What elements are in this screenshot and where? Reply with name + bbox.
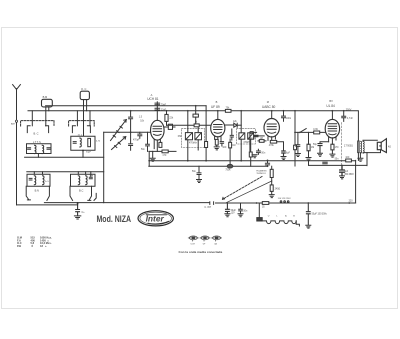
svg-text:A: A — [151, 93, 153, 97]
wire R-avc to pot — [229, 148, 231, 164]
node IFT1 top — [187, 110, 189, 112]
svg-text:Con la onda media conectada: Con la onda media conectada — [179, 250, 223, 254]
ground C-tone — [295, 154, 300, 157]
wire grid line to UCH81 — [104, 131, 151, 133]
node mains tap 220 — [348, 202, 350, 204]
svg-text:B.M: B.M — [43, 95, 48, 99]
variable capacitor CV1 ticks — [113, 126, 122, 137]
wire volume line — [149, 165, 268, 167]
wire IFT1 secondary leads — [197, 128, 199, 150]
switch tone arrow — [300, 129, 306, 133]
wire R-screen down — [166, 121, 168, 125]
resistor R-screen UCH81 — [166, 111, 168, 115]
heater dropper start — [258, 203, 260, 218]
resistor R-1M — [259, 140, 264, 143]
node UL84 top — [332, 110, 334, 112]
node C-4u7 bottom — [267, 165, 269, 167]
capacitor C-50n mains — [239, 203, 243, 213]
wire UCH81 top pin — [156, 102, 158, 121]
wire screen feed — [195, 106, 197, 124]
svg-text:O. L: O. L — [78, 133, 83, 137]
ground C-50n vol — [197, 180, 202, 183]
voltage selector taps — [280, 201, 282, 203]
node C-4u7 top — [267, 160, 269, 162]
svg-text:1M: 1M — [311, 147, 314, 149]
wire bandswitch feed 2 — [76, 111, 78, 126]
wire speaker return — [366, 153, 368, 166]
variable capacitor CV1 — [111, 120, 127, 141]
capacitor C-tone — [296, 132, 300, 153]
resistor R-B+ dropper — [205, 142, 208, 148]
node speaker — [379, 145, 381, 147]
svg-text:L T T. S: L T T. S — [33, 141, 41, 144]
dashed shield outline 1 — [21, 121, 54, 126]
resistor R-det — [249, 152, 252, 157]
svg-text:470kHz: 470kHz — [189, 142, 198, 144]
capacitor C-50u mains — [306, 203, 310, 225]
wire return bus — [309, 164, 367, 166]
coil box L4 — [71, 174, 96, 186]
tube UF89 grids — [214, 125, 222, 130]
wire HT lower bus — [150, 160, 356, 162]
tube UCH81 cathode — [154, 134, 161, 135]
tube UCH81 envelope — [151, 120, 165, 140]
resistor R-grid UL84 — [314, 131, 320, 134]
svg-text:12V: 12V — [231, 213, 236, 215]
ground C-8u350 — [340, 176, 345, 179]
wire R-filament down — [271, 178, 273, 182]
coil box L3 — [27, 174, 50, 186]
node HT-AF junction — [148, 160, 150, 162]
variable capacitor CV2 ticks — [115, 142, 121, 147]
node R-screen top — [166, 110, 168, 112]
wire left enclosure vertical — [103, 132, 105, 202]
resistor R-k UF89 — [215, 139, 218, 145]
svg-text:50pF: 50pF — [86, 152, 92, 154]
wire bottom left to switch — [104, 202, 210, 204]
wire secondary top — [363, 140, 377, 141]
svg-text:22nF: 22nF — [161, 110, 167, 112]
tube UABC80 cathode — [268, 132, 276, 133]
coil L4b — [86, 176, 88, 185]
node CT1 bottom — [130, 131, 132, 133]
coil L3a — [34, 176, 36, 185]
wire transformer B+ lead — [357, 153, 359, 161]
wire heater bus A — [46, 105, 207, 107]
node C-100n top — [283, 110, 285, 112]
switch INT right contact — [213, 202, 215, 205]
svg-text:Mod. NIZA: Mod. NIZA — [97, 214, 132, 224]
tube UL84 grids — [328, 124, 336, 131]
wire filament diagonal — [226, 181, 272, 203]
capacitor C-L1a — [28, 148, 31, 150]
ground C-8u — [281, 157, 286, 160]
IFT1 winding secondary — [195, 133, 202, 140]
IFT2 winding primary — [239, 133, 245, 139]
svg-text:50μ: 50μ — [313, 144, 318, 146]
wire IFT2 secondary bottom — [250, 139, 252, 152]
logo Inter ellipse — [138, 211, 173, 226]
IFT2 shield dashed — [237, 129, 256, 144]
wire L1 tap — [37, 154, 39, 158]
capacitor C-L4 — [89, 177, 92, 179]
wire stub to coil box 2 — [89, 111, 91, 126]
svg-text:8μF: 8μF — [344, 171, 349, 173]
resistor R-L2 — [88, 138, 91, 146]
svg-text:18 »: 18 » — [40, 244, 47, 248]
tube UL84 cathode — [329, 134, 336, 135]
switch contact S1a — [27, 126, 30, 133]
ground R-170 — [330, 150, 335, 157]
wire bandswitch feed 1 — [31, 111, 33, 126]
ground R-500k — [306, 151, 311, 161]
resistor R-470k — [270, 140, 276, 143]
connector symbol 1 — [188, 236, 222, 241]
svg-text:8μF: 8μF — [286, 152, 291, 154]
svg-text:TERMICO: TERMICO — [256, 173, 266, 175]
connector symbol 3 — [213, 236, 221, 240]
wire IFT1 primary bottom — [187, 140, 189, 161]
node UF89 top — [217, 110, 219, 112]
capacitor C-det — [230, 129, 233, 140]
switch arm S3b — [47, 186, 50, 200]
resistor R-screen feed — [193, 114, 198, 117]
wire mid bus 2 — [27, 171, 104, 173]
node L2 junction — [82, 150, 84, 152]
coil L1a — [35, 145, 37, 153]
ground C-50n mains — [238, 214, 243, 217]
svg-text:220: 220 — [349, 200, 354, 203]
capacitor C-50u — [226, 203, 230, 213]
capacitor C-k UF89 — [220, 142, 223, 146]
coil L2a — [80, 138, 82, 147]
switch contact S1b — [46, 126, 49, 133]
wire UL84 pins below — [329, 137, 336, 144]
wire heater bus B — [28, 111, 358, 141]
node heater top — [256, 202, 258, 204]
IFT2 winding secondary — [248, 133, 254, 139]
switch arm S4c — [94, 193, 96, 200]
capacitor C-470p — [254, 135, 258, 137]
resistor R-240 — [270, 185, 273, 192]
svg-text:M: M — [267, 100, 269, 104]
wire osc grid stub — [164, 126, 175, 128]
node coupling top — [294, 110, 296, 112]
ground UF89 — [214, 145, 219, 150]
resistor R-500k — [308, 132, 310, 144]
connector symbol 2 — [201, 236, 209, 240]
capacitor C-L2 — [73, 142, 76, 144]
switch arm S4a — [70, 186, 73, 200]
dashed shield outline 2 — [69, 121, 95, 126]
wire R-det to pot wire — [250, 157, 252, 166]
capacitor C-pad 470pF — [138, 132, 142, 138]
wire UABC80 top pin — [271, 111, 273, 119]
table wave bands — [17, 236, 52, 248]
resistor R-1k — [194, 124, 199, 127]
capacitor C-L1b — [47, 148, 50, 150]
tube UF89 cathode — [214, 131, 221, 134]
resistor R-70k — [225, 109, 231, 112]
ground UCH81 — [150, 151, 155, 161]
wire mains right vertical — [355, 160, 357, 203]
capacitor C-k UL84 — [318, 144, 322, 153]
dashed link vertical — [341, 123, 343, 170]
wire IFT2 primary bottom — [240, 139, 242, 161]
capacitor C-elec left — [76, 203, 80, 216]
wire diode to IFT2 — [237, 124, 241, 126]
wire coupling vertical — [294, 111, 296, 166]
wire B.C coil feeds — [78, 172, 91, 177]
coil box L2 — [71, 136, 95, 150]
wire UL84 top pin — [331, 111, 333, 120]
svg-text:750k: 750k — [225, 170, 231, 172]
capacitor C-100n — [282, 111, 286, 121]
antenna — [13, 85, 21, 90]
svg-text:B.C: B.C — [79, 189, 83, 193]
wire UABC80 pins below — [268, 136, 275, 140]
svg-text:P.B: P.B — [17, 244, 21, 248]
wire B.M coil feeds — [34, 172, 42, 174]
wire UF89 anode — [225, 124, 234, 126]
ground transformer — [358, 153, 363, 162]
svg-text:UL 84: UL 84 — [326, 104, 335, 108]
wire mid bus 1 — [25, 156, 104, 158]
wire diode branch — [249, 132, 251, 151]
node IFT1 bottom — [187, 160, 189, 162]
shield can O.C — [80, 91, 89, 99]
ground C-50u mains — [306, 225, 311, 228]
capacitor C-8u 350V — [340, 165, 345, 175]
capacitor C-osc bottom — [155, 108, 160, 110]
potentiometer P-750k — [227, 164, 233, 168]
svg-text:1M: 1M — [232, 145, 235, 147]
wire B+ feed vertical — [205, 106, 207, 161]
svg-text:110 125 220V: 110 125 220V — [278, 198, 292, 200]
IFT1 winding primary — [185, 133, 192, 140]
wire can O.C lead 1 — [83, 100, 85, 136]
node grid junction — [294, 132, 296, 134]
node antenna terminal — [15, 120, 17, 122]
coil L1b — [42, 145, 44, 153]
wire IFT2 grid out — [254, 135, 265, 137]
diode D1 — [234, 123, 237, 127]
svg-text:470pF: 470pF — [133, 140, 140, 142]
svg-text:70pF: 70pF — [161, 104, 167, 106]
ground R-240 — [269, 195, 274, 198]
svg-text:50μF 150 300v: 50μF 150 300v — [312, 213, 328, 215]
resistor R-avc — [229, 142, 232, 148]
coil box L1 — [27, 144, 52, 154]
capacitor C-8u — [282, 151, 285, 156]
svg-text:B: B — [216, 100, 218, 104]
wire antenna down-lead — [16, 89, 18, 205]
svg-text:4Ω: 4Ω — [388, 146, 391, 148]
wire IFT1 primary top — [187, 111, 189, 133]
switch contact S2a — [72, 126, 75, 133]
wire bottom chassis left — [44, 202, 103, 204]
svg-text:BV: BV — [329, 99, 333, 103]
transformer T-out primary — [360, 141, 361, 153]
node C50u top — [307, 202, 309, 204]
node B+ bottom — [205, 160, 207, 162]
resistor R-k UCH81 — [159, 142, 162, 147]
node screen feed — [195, 105, 197, 107]
capacitor C-4u7 filament — [265, 160, 269, 166]
svg-text:350 380V: 350 380V — [344, 174, 354, 176]
svg-text:Z 7000Ω: Z 7000Ω — [344, 145, 353, 147]
resistor R-35 — [262, 202, 269, 205]
svg-text:UCH: UCH — [191, 244, 196, 246]
capacitor C-4n7 — [342, 111, 346, 122]
svg-text:250V: 250V — [346, 109, 352, 112]
dashed pot link — [223, 177, 263, 200]
wire R-470k right — [277, 142, 284, 151]
resistor R-170 — [331, 144, 334, 150]
wire UCH81 cathode line — [149, 150, 176, 152]
node electrolytic junction — [77, 203, 79, 205]
ground det — [252, 155, 257, 158]
tube UCH81 grids — [153, 126, 162, 131]
ground C-50u — [225, 214, 230, 217]
svg-text:4,7nF: 4,7nF — [347, 118, 353, 120]
coil L4a — [78, 176, 80, 185]
capacitor C-osc top — [155, 103, 160, 105]
resistor R-coupling — [294, 145, 297, 150]
svg-text:0,39: 0,39 — [313, 129, 318, 131]
node IFT2 top — [240, 110, 242, 112]
capacitor C-50n vol — [197, 166, 201, 179]
wire UF89 pins below — [215, 136, 221, 141]
ground C-k UL84 — [318, 153, 323, 156]
svg-text:B. C: B. C — [34, 132, 39, 136]
wire pot feed vertical — [148, 151, 150, 166]
svg-text:UCH 81: UCH 81 — [147, 97, 159, 101]
transformer T-out core — [358, 141, 359, 153]
capacitor trimmer CT2 — [129, 132, 133, 150]
coil L3b — [43, 176, 45, 185]
svg-text:1M: 1M — [260, 138, 263, 140]
transformer T-out secondary — [363, 141, 364, 153]
svg-text:240Ω: 240Ω — [275, 188, 281, 190]
wire bottom chassis right — [216, 202, 356, 204]
svg-text:100n: 100n — [286, 118, 292, 120]
tube UL84 envelope — [325, 119, 339, 138]
svg-text:FM: FM — [178, 136, 181, 138]
wire UF89 top pin — [217, 111, 219, 120]
resistor R-cath horizontal — [162, 150, 168, 153]
wire can B.M lead 2 — [48, 107, 50, 111]
svg-text:UABC 80: UABC 80 — [262, 105, 276, 109]
variable capacitor CV2 — [112, 137, 126, 150]
shield can B.M — [42, 99, 53, 107]
heater chain end hook — [296, 221, 299, 226]
switch arm S3a — [26, 186, 30, 200]
wire IFT1 feed — [167, 124, 211, 126]
resistor R-filament — [271, 166, 273, 169]
switch contact S2b — [87, 126, 90, 133]
svg-text:UF 89: UF 89 — [211, 105, 220, 109]
capacitor trimmer CT1 — [129, 111, 133, 133]
wire antenna return — [17, 204, 78, 206]
ground left electrolytic — [74, 216, 80, 219]
node C-4n7 top — [343, 110, 345, 112]
capacitor C-osc grid box — [168, 124, 172, 129]
switch INT left contact — [209, 202, 211, 205]
wire UL84 grid line — [295, 131, 325, 133]
svg-text:470kHz: 470kHz — [243, 142, 252, 144]
wire cathode to cap — [320, 142, 329, 144]
heater chain — [262, 221, 296, 224]
svg-text:O. C: O. C — [81, 87, 86, 91]
svg-text:470pF: 470pF — [249, 138, 256, 140]
wire can O.C lead 2 — [86, 100, 88, 111]
resistor R-100 — [346, 159, 352, 162]
diode plates UABC80 — [250, 132, 256, 134]
svg-text:C. INT: C. INT — [204, 206, 211, 209]
tube UABC80 grids — [267, 124, 276, 129]
wire L2 tap — [82, 150, 84, 157]
svg-text:ANT: ANT — [11, 123, 16, 126]
IFT1 shield dashed — [182, 128, 205, 147]
capacitor C-50n left — [146, 132, 150, 151]
capacitor C-ret small — [323, 162, 327, 164]
wire secondary bottom — [363, 150, 381, 153]
speaker horn — [381, 139, 386, 153]
speaker frame — [377, 142, 381, 149]
wire IFT2 primary top — [240, 111, 242, 133]
node UABC80 top — [271, 110, 273, 112]
svg-text:470k: 470k — [269, 145, 275, 147]
wire R-avc top — [229, 139, 231, 142]
tube UF89 envelope — [211, 119, 225, 136]
node IFT2 bottom — [240, 160, 242, 162]
wire return stub — [308, 160, 310, 165]
wire can B.M lead 1 — [45, 107, 47, 126]
switch arm S4b — [88, 186, 92, 200]
capacitor C-L3 — [29, 178, 32, 180]
tube UABC80 envelope — [264, 119, 279, 137]
node CT1 top — [130, 110, 132, 112]
capacitor C-50n det — [257, 149, 261, 154]
wire UCH81 pins below — [154, 140, 160, 152]
svg-text:B.N: B.N — [35, 189, 39, 193]
